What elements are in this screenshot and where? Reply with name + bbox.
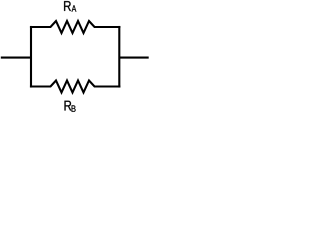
node B: right vertical bus joining top and bottom branches [118,26,120,88]
wire: left lead (input terminal to left node) [1,57,31,59]
label R_A (subscript A) [72,5,77,11]
label R_B (subscript B) [72,105,76,111]
label R_A (letter R) [64,1,71,11]
resistor R_A: top branch wire with zigzag element [30,21,120,33]
resistor R_B: bottom branch wire with zigzag element [30,81,120,93]
wire: right lead (right node to output terminal) [119,57,148,59]
node A: left vertical bus joining top and bottom branches [30,26,32,88]
label R_B (letter R) [65,101,72,111]
